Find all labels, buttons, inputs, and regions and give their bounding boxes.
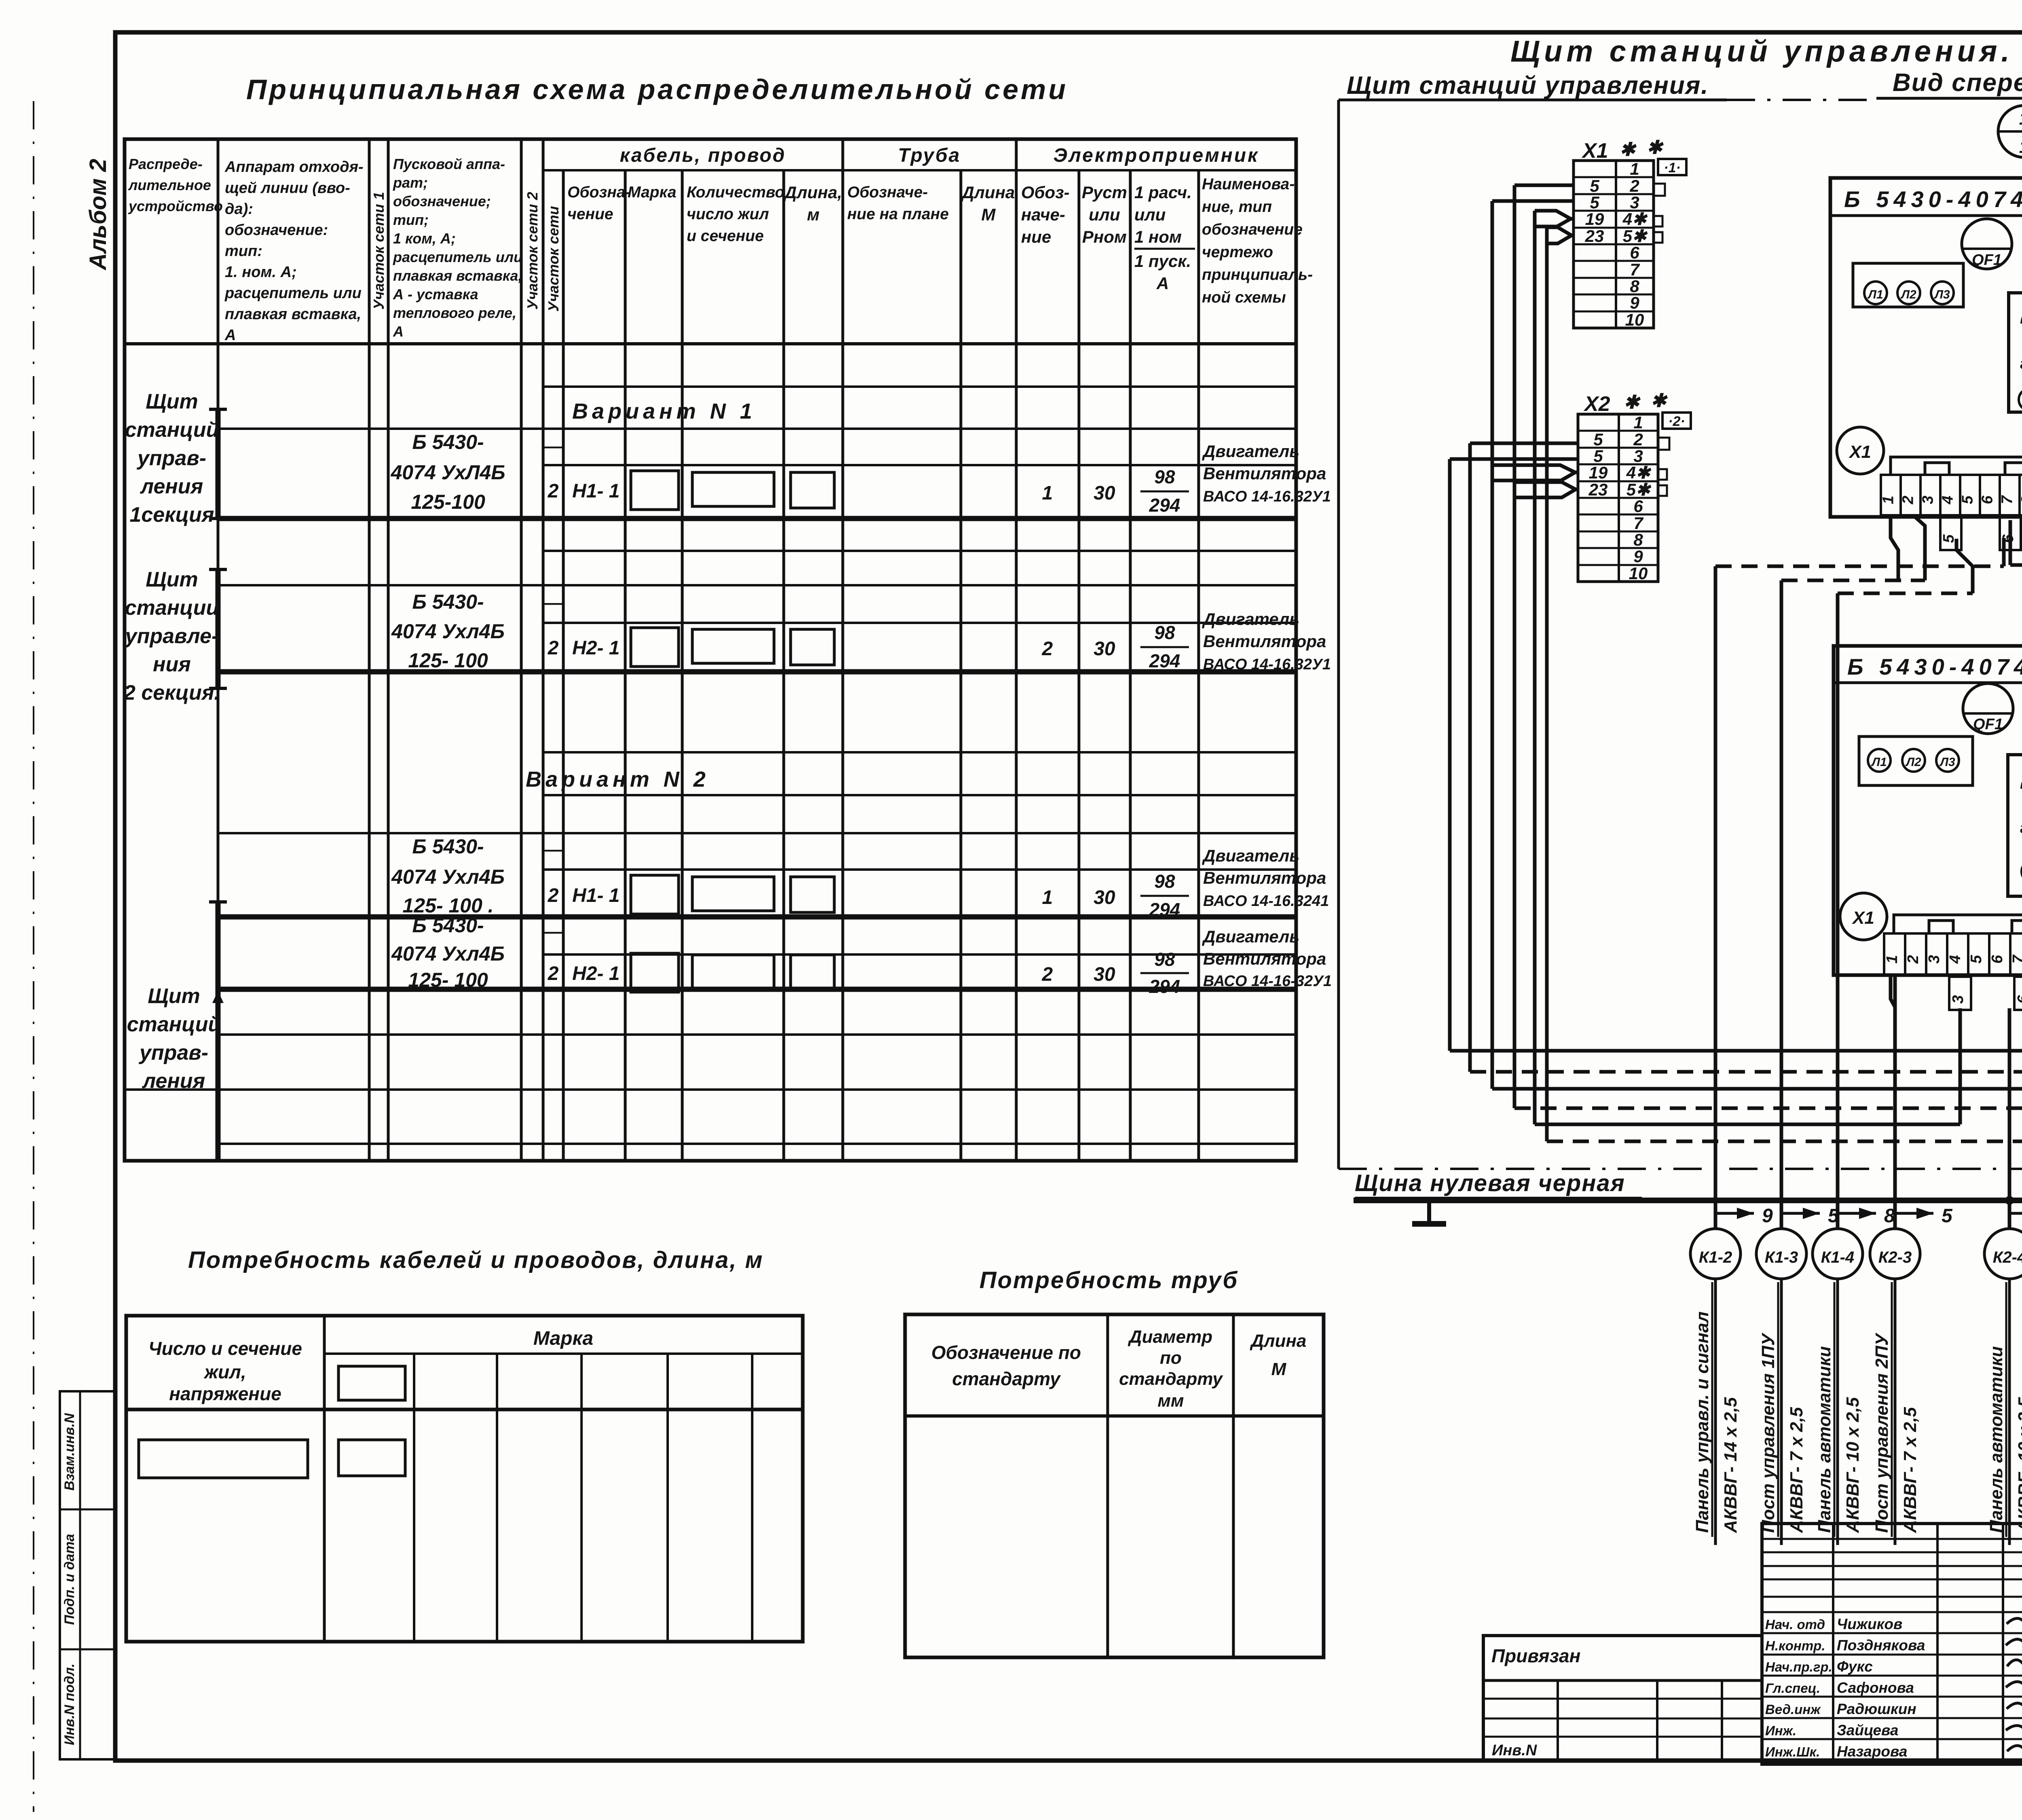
row: section2 electro values (1042, 609, 1331, 673)
pipe header: Обозначение по стандарту (931, 1342, 1081, 1389)
header: Аппарат отходящей линии (224, 159, 364, 344)
wire X2 row3 (1450, 457, 1578, 461)
svg-text:Длина,: Длина, (783, 183, 842, 202)
svg-text:Н.контр.: Н.контр. (1765, 1638, 1825, 1653)
svg-text:X1: X1 (1851, 908, 1874, 928)
wire run H4 (dashed) (1514, 1108, 2022, 1196)
svg-text:1: 1 (1042, 483, 1053, 504)
svg-text:H1- 1: H1- 1 (572, 480, 620, 502)
svg-text:Зайцева: Зайцева (1837, 1722, 1898, 1739)
breaker QF1 (1962, 219, 2012, 269)
panel2 lamp box (1859, 736, 1973, 785)
svg-text:расцепитель или: расцепитель или (393, 249, 522, 265)
svg-text:✱: ✱ (1620, 139, 1637, 160)
svg-text:4074 Ухл4Б: 4074 Ухл4Б (391, 942, 505, 965)
svg-text:Вентилятора: Вентилятора (1203, 632, 1326, 651)
svg-text:1. ном. А;: 1. ном. А; (225, 264, 297, 281)
svg-text:Привязан: Привязан (1491, 1645, 1580, 1666)
cable drop K1-2 (1690, 1169, 1773, 1545)
svg-text:Б 5430-: Б 5430- (412, 835, 484, 858)
label under K2-3 (1872, 1282, 1920, 1537)
wire X2 row2 (1470, 442, 1578, 445)
svg-text:Руст: Руст (1082, 183, 1127, 202)
schematic view border (1339, 98, 2022, 1169)
svg-text:5: 5 (1590, 193, 1599, 212)
row: section3 H1-1 feeder (391, 835, 834, 917)
svg-text:тип:: тип: (225, 243, 262, 260)
panel2 contactor detail box (2008, 755, 2022, 896)
svg-text:Количество: Количество (687, 184, 785, 201)
svg-text:Наименова-: Наименова- (1202, 176, 1294, 193)
connector X2 table (1578, 413, 1658, 583)
svg-text:Щит: Щит (146, 568, 198, 591)
panel 2 Б 5430-4074 УХЛ4Б (1834, 646, 2022, 975)
cable drop K2-4 (1984, 1169, 2022, 1545)
svg-text:3: 3 (1919, 495, 1936, 504)
svg-text:принципиаль-: принципиаль- (1202, 266, 1313, 284)
svg-text:✱: ✱ (1651, 390, 1668, 411)
svg-text:управ-: управ- (136, 447, 206, 470)
svg-text:8: 8 (1630, 277, 1639, 296)
svg-text:·2·: ·2· (1668, 414, 1685, 429)
svg-text:Панель автоматики: Панель автоматики (1815, 1346, 1834, 1533)
svg-text:2: 2 (1042, 964, 1053, 985)
svg-text:4074 УхЛ4Б: 4074 УхЛ4Б (390, 461, 505, 484)
svg-text:М: М (981, 205, 996, 224)
small table: Привязан (1483, 1636, 1762, 1761)
svg-text:Труба: Труба (898, 145, 961, 166)
svg-text:Сафонова: Сафонова (1837, 1680, 1914, 1696)
signature rows text (1765, 1616, 2022, 1760)
lamp Л3 (1931, 281, 1954, 304)
row: section1 H1-1 feeder (390, 431, 834, 513)
title: Принципиальная схема распределительной сети (246, 74, 1068, 105)
terminal 12 (panel2) (2020, 813, 2022, 837)
svg-text:АКВВГ- 7 х 2,5: АКВВГ- 7 х 2,5 (1900, 1407, 1920, 1533)
svg-text:294: 294 (1149, 976, 1180, 997)
svg-text:Инв.N подл.: Инв.N подл. (62, 1663, 77, 1745)
title: Потребность труб (979, 1267, 1238, 1293)
svg-text:Участок сети: Участок сети (545, 206, 562, 311)
bus ground symbol (1412, 1200, 1446, 1224)
svg-text:1: 1 (1633, 413, 1643, 432)
svg-text:Щит станций управления. С: Щит станций управления. Схема подключени… (1510, 34, 2022, 68)
terminals C1 C2 C3 (panel2) (2022, 856, 2022, 882)
svg-text:98: 98 (1154, 871, 1175, 892)
svg-text:Участок сети 2: Участок сети 2 (524, 192, 541, 309)
svg-text:К1-2: К1-2 (1699, 1249, 1732, 1266)
margin label: Инв. N подл. (62, 1663, 77, 1745)
svg-text:рат;: рат; (393, 174, 428, 191)
svg-text:К1-4: К1-4 (1821, 1249, 1854, 1266)
svg-text:м: м (807, 205, 819, 224)
svg-text:1 пуск.: 1 пуск. (1134, 252, 1191, 271)
svg-text:Щит станций управления.: Щит станций управления. (1347, 72, 1709, 99)
svg-text:А: А (393, 323, 404, 340)
panel1 contactor detail box (2009, 293, 2022, 412)
svg-text:10: 10 (1625, 310, 1644, 329)
svg-text:Вентилятора: Вентилятора (1203, 949, 1326, 968)
svg-text:Б 5430-4074 УХЛ4Б: Б 5430-4074 УХЛ4Б (1844, 186, 2022, 212)
svg-text:2: 2 (548, 480, 559, 502)
panel1 lamp box (1853, 263, 1963, 307)
svg-text:Рном: Рном (1082, 227, 1127, 246)
svg-text:125-100: 125-100 (411, 491, 485, 513)
svg-text:расцепитель или: расцепитель или (224, 285, 362, 302)
svg-text:✱: ✱ (1624, 392, 1641, 413)
svg-text:294: 294 (1149, 899, 1180, 920)
svg-text:лительное: лительное (128, 177, 211, 193)
svg-text:Подп. и дата: Подп. и дата (62, 1534, 77, 1625)
svg-text:2: 2 (1905, 955, 1922, 964)
svg-text:станций: станций (125, 418, 219, 442)
svg-text:мм: мм (1157, 1391, 1184, 1411)
svg-text:кабель, провод: кабель, провод (620, 145, 786, 166)
svg-text:·1·: ·1· (1664, 160, 1681, 176)
svg-text:2 секция.: 2 секция. (123, 681, 220, 705)
svg-text:Л1: Л1 (1867, 288, 1883, 301)
svg-text:Щит: Щит (146, 390, 198, 413)
wire panel2 subcell runs down (1895, 975, 2022, 1169)
svg-text:4074 Ухл4Б: 4074 Ухл4Б (391, 866, 505, 888)
svg-text:Распреде-: Распреде- (129, 156, 203, 172)
connector X2 label (1583, 390, 1668, 416)
svg-text:294: 294 (1149, 495, 1180, 516)
svg-text:Панель управл. и сигнал: Панель управл. и сигнал (1692, 1312, 1712, 1533)
svg-text:9: 9 (1633, 547, 1643, 566)
svg-text:Число и сечение: Число и сечение (148, 1338, 302, 1359)
svg-text:Вид спереди.: Вид спереди. (1893, 69, 2022, 97)
svg-text:—: — (544, 922, 563, 942)
svg-text:4: 4 (1947, 955, 1964, 964)
svg-text:ной схемы: ной схемы (1202, 289, 1286, 306)
svg-text:30: 30 (1093, 638, 1115, 660)
row: section3 H2-1 feeder (391, 914, 834, 992)
svg-text:ВАСО 14-16.32У1: ВАСО 14-16.32У1 (1203, 488, 1331, 505)
header: Обозначение (эл) (1021, 183, 1070, 246)
svg-text:Обозначе-: Обозначе- (847, 184, 928, 201)
svg-text:9: 9 (1630, 293, 1639, 312)
svg-text:Инж.Шк.: Инж.Шк. (1765, 1744, 1820, 1759)
svg-text:Б 5430-: Б 5430- (412, 431, 484, 453)
svg-text:Двигатель: Двигатель (1202, 927, 1299, 946)
svg-text:по: по (1160, 1348, 1182, 1368)
svg-text:Инв.N: Инв.N (1492, 1742, 1538, 1759)
svg-text:г: г (2020, 355, 2022, 372)
svg-text:наче-: наче- (1021, 205, 1065, 224)
zero bus (1354, 1188, 2022, 1213)
svg-text:7: 7 (1633, 514, 1643, 533)
svg-text:125- 100: 125- 100 (408, 649, 488, 672)
svg-text:125- 100: 125- 100 (408, 969, 488, 991)
svg-text:X1: X1 (1581, 139, 1608, 163)
group header: Труба (898, 145, 961, 166)
svg-text:98: 98 (1154, 622, 1175, 643)
lamp Л3 (panel2) (1936, 749, 1959, 772)
svg-text:4: 4 (1939, 495, 1956, 504)
panel2 terminal sub-cells (1949, 977, 2022, 1010)
svg-text:8: 8 (2018, 495, 2022, 504)
svg-text:1 ком, А;: 1 ком, А; (393, 230, 456, 247)
row label: Щит станций управления (вариант 2) (127, 984, 221, 1093)
svg-text:6: 6 (2015, 995, 2022, 1004)
svg-text:1: 1 (1884, 955, 1901, 963)
wire X2 row5 chevron (1514, 482, 1578, 497)
svg-text:5: 5 (1593, 447, 1603, 466)
svg-text:Назарова: Назарова (1837, 1743, 1907, 1760)
svg-text:6: 6 (1633, 497, 1643, 516)
label under K1-2 (1692, 1282, 1741, 1537)
label under K2-4 (1986, 1282, 2022, 1537)
svg-text:Вариант N 2: Вариант N 2 (526, 767, 710, 791)
row: section3 row2 electro values (1042, 927, 1332, 997)
svg-text:4✱: 4✱ (1622, 210, 1648, 229)
svg-text:294: 294 (1149, 650, 1180, 671)
cable needs table (126, 1316, 803, 1642)
connector label X1 circle (panel2) (1840, 893, 1887, 940)
wire bundle verticals (1450, 185, 1547, 1141)
svg-text:6: 6 (1989, 954, 2006, 963)
svg-text:жил,: жил, (203, 1361, 246, 1382)
svg-text:Л2: Л2 (1900, 288, 1916, 301)
svg-text:Потребность труб: Потребность труб (979, 1267, 1238, 1293)
breaker QF1 (panel2) (1963, 684, 2013, 734)
svg-text:98: 98 (1154, 466, 1175, 487)
svg-text:Фукс: Фукс (1837, 1658, 1873, 1675)
svg-text:Обозна-: Обозна- (567, 184, 630, 201)
X2 side tabs (1658, 438, 1669, 496)
connector X1 table (1574, 159, 1654, 329)
pipe header: Диаметр по стандарту мм (1119, 1327, 1223, 1411)
wire subcell6 right run (2010, 520, 2022, 565)
svg-text:3: 3 (1630, 193, 1639, 212)
connector X1 label (1581, 137, 1664, 163)
svg-text:Принципиальная схема распре: Принципиальная схема распределительной с… (246, 74, 1068, 105)
svg-text:теплового реле,: теплового реле, (393, 305, 516, 321)
terminal 12 (2020, 349, 2022, 372)
svg-text:плавкая вставка,: плавкая вставка, (393, 267, 522, 284)
cable table header: Число и сечение жил, напряжение (148, 1338, 302, 1404)
svg-text:Электроприемник: Электроприемник (1053, 145, 1259, 166)
svg-text:1 ном: 1 ном (1134, 227, 1182, 246)
svg-text:QF1: QF1 (1972, 252, 2002, 269)
svg-text:1: 1 (2019, 109, 2022, 129)
svg-text:Б 5430-: Б 5430- (412, 590, 484, 613)
schematic subtitle left: Щит станций управления. (1347, 72, 1709, 99)
svg-text:плавкая вставка,: плавкая вставка, (225, 306, 361, 323)
distribution table grid (125, 139, 1296, 1161)
panel1 strip top jumpers (1891, 457, 2022, 475)
svg-text:Обоз-: Обоз- (1021, 183, 1070, 202)
margin label strip boxes (60, 1391, 115, 1759)
wire run H2 (dashed) (1470, 1072, 2022, 1196)
svg-text:23: 23 (1588, 480, 1608, 499)
wire run H3 (1492, 1008, 2022, 1089)
header: Участок сети (rotated) (545, 206, 562, 311)
svg-text:6: 6 (1979, 495, 1996, 504)
svg-text:23: 23 (1585, 226, 1604, 245)
svg-text:станций: станций (127, 1013, 221, 1036)
lamp Л1 (panel2) (1868, 749, 1891, 772)
svg-text:Б 5430-4074 УХЛ4Б: Б 5430-4074 УХЛ4Б (1847, 654, 2022, 679)
svg-text:ВАСО 14-16.3241: ВАСО 14-16.3241 (1203, 893, 1329, 910)
svg-text:Л1: Л1 (1871, 756, 1887, 769)
svg-text:Щит: Щит (148, 984, 200, 1008)
svg-text:устройство: устройство (128, 198, 223, 214)
svg-text:М: М (1271, 1359, 1287, 1379)
svg-text:Пост управления 1ПУ: Пост управления 1ПУ (1758, 1332, 1778, 1533)
album label: Альбом 2 (85, 159, 111, 271)
svg-text:АКВВГ- 14 х 2,5: АКВВГ- 14 х 2,5 (1721, 1397, 1741, 1533)
svg-text:Чижиков: Чижиков (1837, 1616, 1902, 1632)
svg-text:щей линии (вво-: щей линии (вво- (225, 180, 350, 197)
svg-text:АКВВГ- 10 х 2,5: АКВВГ- 10 х 2,5 (2015, 1397, 2022, 1533)
svg-text:H1- 1: H1- 1 (572, 885, 620, 906)
svg-text:ВАСО 14-16-32У1: ВАСО 14-16-32У1 (1203, 973, 1332, 990)
svg-text:5: 5 (1968, 954, 1985, 963)
header: Участок сети 1 (rotated) (370, 192, 387, 309)
svg-text:Л2: Л2 (1905, 756, 1921, 769)
signature table grid (1762, 1524, 2022, 1764)
header: Количество число жил и сечение (687, 184, 785, 245)
svg-text:10: 10 (1629, 564, 1648, 583)
svg-text:ления: ления (140, 475, 203, 498)
lamp Л1 (1864, 281, 1887, 304)
svg-text:станции: станции (125, 596, 219, 620)
panel1 terminal sub-cells (1940, 517, 2022, 550)
X1 wire tag .1. (1658, 159, 1686, 176)
svg-text:30: 30 (1093, 483, 1115, 504)
row label: Щит станций управления 1 секция (125, 390, 219, 527)
svg-text:Инж.: Инж. (1765, 1723, 1796, 1738)
svg-text:Марка: Марка (533, 1328, 593, 1349)
panel 1 Б 5430-4074 УХЛ4Б (1830, 178, 2022, 517)
svg-text:Диаметр: Диаметр (1127, 1327, 1212, 1347)
svg-text:5: 5 (1942, 1205, 1953, 1227)
svg-text:2: 2 (548, 963, 559, 984)
wire X1 row3 (1492, 199, 1574, 203)
svg-text:7: 7 (2010, 954, 2022, 963)
svg-text:и сечение: и сечение (687, 227, 764, 245)
svg-text:Радюшкин: Радюшкин (1837, 1701, 1916, 1717)
svg-text:в: в (2020, 775, 2022, 792)
header: Марка (628, 184, 676, 201)
header: Длина, м (783, 183, 842, 224)
svg-text:Вентилятора: Вентилятора (1203, 868, 1326, 887)
bus junction dots (2005, 1196, 2022, 1205)
svg-text:стандарту: стандарту (952, 1368, 1061, 1389)
svg-text:1секция: 1секция (129, 503, 214, 527)
busbar section 2 (209, 569, 227, 688)
svg-text:управле-: управле- (124, 624, 219, 648)
svg-text:1: 1 (2019, 137, 2022, 157)
svg-text:3: 3 (1950, 995, 1967, 1003)
svg-text:Двигатель: Двигатель (1202, 846, 1299, 865)
svg-text:Нач. отд: Нач. отд (1765, 1617, 1825, 1632)
svg-text:стандарту: стандарту (1119, 1369, 1223, 1389)
svg-text:7: 7 (1630, 260, 1640, 279)
pipe header: Длина М (1249, 1331, 1306, 1379)
label: Шина нулевая черная (1355, 1170, 1642, 1198)
svg-text:ние на плане: ние на плане (847, 205, 949, 223)
svg-text:А - уставка: А - уставка (393, 286, 478, 303)
lamp Л2 (1897, 281, 1920, 304)
svg-text:Гл.спец.: Гл.спец. (1765, 1681, 1820, 1696)
margin label: Подп. и дата (62, 1534, 77, 1625)
svg-text:2: 2 (1629, 176, 1639, 195)
row: section3 row1 electro values (1042, 846, 1329, 920)
svg-text:Двигатель: Двигатель (1202, 609, 1299, 629)
svg-text:19: 19 (1585, 210, 1604, 229)
svg-text:управ-: управ- (138, 1041, 208, 1064)
svg-text:АКВВГ- 7 х 2,5: АКВВГ- 7 х 2,5 (1787, 1407, 1806, 1533)
svg-text:Взам.инв.N: Взам.инв.N (62, 1413, 77, 1491)
svg-text:9: 9 (1762, 1205, 1773, 1227)
header: 1 расч или 1 ном / 1 пуск А (1134, 183, 1195, 293)
svg-text:Н2- 1: Н2- 1 (572, 637, 620, 659)
svg-text:ния: ния (153, 653, 191, 676)
svg-text:или: или (1089, 205, 1120, 224)
svg-text:2: 2 (548, 885, 559, 906)
header: Распределительное устройство (128, 156, 223, 214)
wire run H6 (dashed) (1547, 1141, 2022, 1196)
svg-text:Вед.инж: Вед.инж (1765, 1702, 1821, 1717)
cable drop K2-3 (1870, 1169, 1953, 1545)
svg-text:3: 3 (1633, 447, 1643, 466)
svg-text:А: А (1156, 274, 1169, 293)
row label: Щит станции управления 2 секция (123, 568, 220, 705)
svg-text:обозначение:: обозначение: (225, 222, 328, 239)
svg-text:да):: да): (225, 201, 253, 218)
svg-text:Пост управления 2ПУ: Пост управления 2ПУ (1872, 1332, 1892, 1533)
label under K1-3 (1758, 1282, 1806, 1537)
svg-text:чение: чение (567, 205, 613, 223)
X2 wire tag .2. (1662, 413, 1691, 429)
wire panel1 cell run C (dashed) (1838, 539, 1973, 1169)
terminals C1 C2 C3 (2019, 384, 2022, 411)
svg-text:X1: X1 (1848, 442, 1871, 462)
svg-text:Пусковой аппа-: Пусковой аппа- (393, 156, 505, 172)
svg-text:✱: ✱ (1647, 137, 1664, 158)
svg-text:2: 2 (1633, 430, 1643, 449)
cable drop K1-3 (1756, 1169, 1839, 1545)
svg-text:Обозначение по: Обозначение по (931, 1342, 1081, 1363)
schematic subtitle right: Вид спереди. (1893, 69, 2022, 97)
svg-text:Б 5430-: Б 5430- (412, 914, 484, 937)
svg-text:А: А (224, 327, 236, 344)
busbar section 1 (209, 409, 227, 518)
header: Участок сети 2 (rotated) (524, 192, 541, 309)
svg-text:2: 2 (548, 637, 559, 659)
schematic title: Щит станций управления. Схема подключения (1510, 34, 2022, 68)
row: section1 electro values (1042, 442, 1331, 516)
svg-text:Вентилятора: Вентилятора (1203, 464, 1326, 483)
callout circle 1/1 (1998, 106, 2022, 157)
svg-text:2: 2 (1042, 638, 1053, 660)
group header: Электроприемник (1053, 145, 1259, 166)
svg-text:Двигатель: Двигатель (1202, 442, 1299, 461)
svg-text:ления: ления (142, 1069, 205, 1093)
text: Вариант N 2 (526, 767, 710, 791)
panel2 strip top jumpers (1894, 915, 2022, 933)
busbar section 3 (209, 902, 227, 1161)
row: section2 H2-1 feeder (391, 590, 834, 672)
title: Потребность кабелей и проводов, длина, м (188, 1247, 764, 1273)
svg-text:4✱: 4✱ (1626, 463, 1652, 482)
wire run H1 (1450, 1008, 2022, 1051)
svg-text:Длина: Длина (1249, 1331, 1306, 1351)
svg-text:К2-3: К2-3 (1878, 1249, 1912, 1266)
